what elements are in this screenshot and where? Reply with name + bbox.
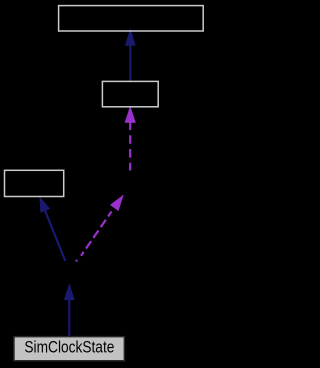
edge E5 dashed usage line up-right [81,212,112,256]
edge E5 stray dash dot [75,260,77,262]
edge E2 arrowhead at middle box [125,106,136,123]
edge E3 arrowhead at left box [39,196,50,213]
node box SimClockState (current node, filled) [14,337,124,361]
edge E5 arrowhead pointing up-right at hidden label [110,194,124,211]
edge E4 arrowhead pointing up at hidden label [64,283,75,300]
edge E1 inheritance line middle-to-top [129,45,131,82]
node box middle (unfilled) [102,81,158,106]
edge E2 dashed line below middle box [129,122,131,171]
node box left (unfilled) [5,170,64,196]
edge E4 inheritance line from SimClockState up [68,300,70,339]
svg-text:SimClockState: SimClockState [24,337,114,356]
edge E3 inheritance line up-left to left box [45,211,65,262]
edge E1 arrowhead at top box [125,28,136,46]
node box top (base class, unfilled) [59,6,204,31]
